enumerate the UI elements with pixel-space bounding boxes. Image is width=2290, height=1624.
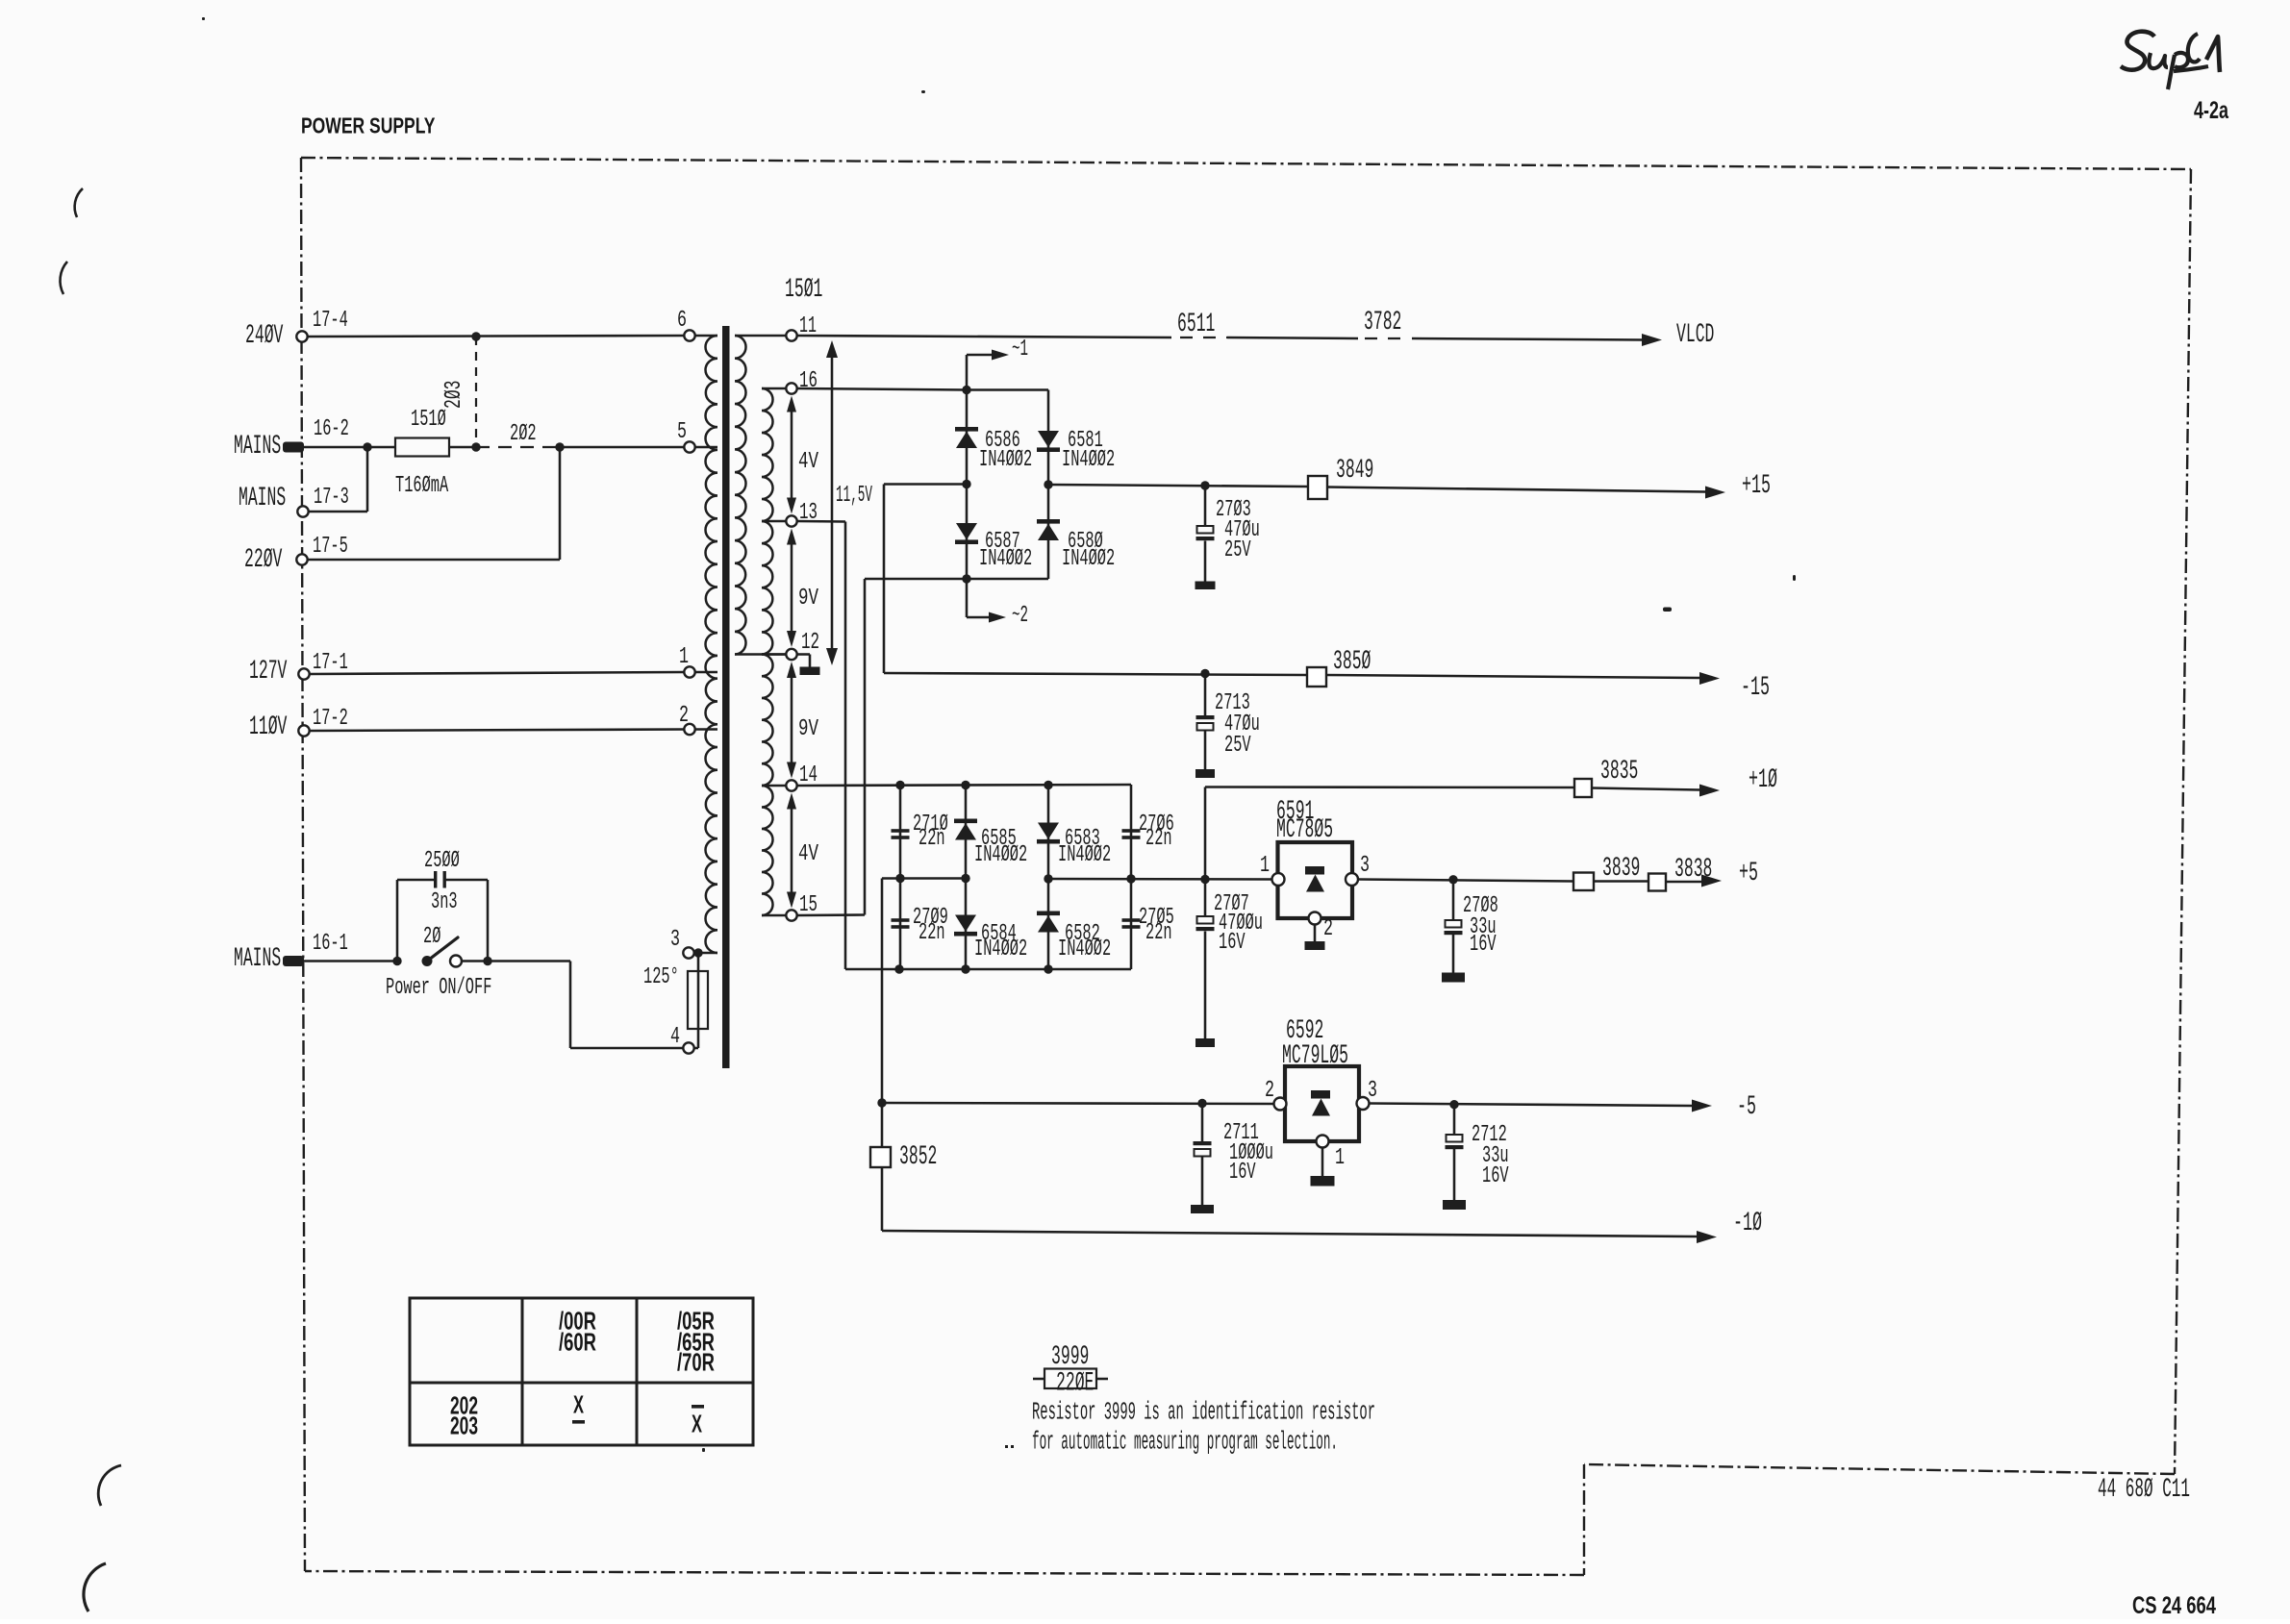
svg-text:CS 24 664: CS 24 664 — [2132, 1592, 2216, 1619]
svg-text:17-3: 17-3 — [314, 485, 349, 511]
svg-text:IN4ØØ2: IN4ØØ2 — [1062, 546, 1115, 572]
svg-text:IN4ØØ2: IN4ØØ2 — [974, 842, 1027, 868]
svg-text:2Ø3: 2Ø3 — [441, 381, 467, 410]
svg-text:MAINS: MAINS — [239, 484, 286, 513]
svg-text:11,5V: 11,5V — [836, 483, 872, 509]
svg-text:4V: 4V — [798, 841, 818, 867]
svg-text:3: 3 — [1360, 853, 1370, 879]
svg-text:6511: 6511 — [1177, 310, 1215, 339]
svg-text:25V: 25V — [1224, 733, 1251, 759]
svg-text:3999: 3999 — [1051, 1342, 1089, 1372]
svg-text:MC79LØ5: MC79LØ5 — [1282, 1041, 1348, 1071]
svg-text:17-1: 17-1 — [313, 650, 348, 676]
svg-text:125°: 125° — [643, 964, 679, 990]
svg-text:3: 3 — [670, 927, 680, 953]
svg-text:/60R: /60R — [559, 1328, 596, 1357]
svg-text:X: X — [692, 1410, 702, 1438]
svg-text:-1Ø: -1Ø — [1733, 1209, 1762, 1238]
svg-text:16-1: 16-1 — [313, 931, 348, 957]
svg-text:5: 5 — [677, 419, 687, 445]
svg-text:203: 203 — [450, 1412, 478, 1440]
svg-text:IN4ØØ2: IN4ØØ2 — [979, 447, 1032, 473]
svg-text:Resistor 3999 is an identifica: Resistor 3999 is an identification resis… — [1032, 1399, 1375, 1427]
svg-text:~2: ~2 — [1012, 603, 1028, 629]
svg-text:-15: -15 — [1741, 673, 1770, 703]
svg-text:16V: 16V — [1229, 1160, 1256, 1186]
svg-text:4V: 4V — [798, 449, 818, 475]
svg-text:25ØØ: 25ØØ — [424, 848, 460, 874]
svg-text:17-5: 17-5 — [313, 534, 348, 560]
svg-text:MAINS: MAINS — [234, 432, 281, 462]
svg-text:22n: 22n — [1145, 920, 1172, 946]
svg-text:3n3: 3n3 — [431, 889, 458, 915]
svg-text:/70R: /70R — [677, 1348, 715, 1377]
svg-text:+5: +5 — [1739, 859, 1758, 888]
svg-text:IN4ØØ2: IN4ØØ2 — [1058, 842, 1111, 868]
svg-text:~1: ~1 — [1012, 337, 1028, 362]
svg-text:6: 6 — [677, 308, 687, 334]
svg-text:2: 2 — [1265, 1078, 1274, 1104]
svg-text:385Ø: 385Ø — [1333, 647, 1371, 677]
svg-text:24ØV: 24ØV — [245, 321, 284, 351]
svg-text:16V: 16V — [1470, 932, 1497, 958]
svg-text:X: X — [573, 1390, 584, 1419]
svg-text:16: 16 — [799, 368, 818, 394]
svg-text:15Ø1: 15Ø1 — [785, 275, 822, 305]
svg-text:-5: -5 — [1737, 1092, 1756, 1122]
svg-text:IN4ØØ2: IN4ØØ2 — [979, 546, 1032, 572]
svg-text:16V: 16V — [1482, 1163, 1509, 1189]
svg-text:3: 3 — [1368, 1078, 1377, 1104]
svg-text:+1Ø: +1Ø — [1749, 765, 1777, 795]
svg-text:127V: 127V — [249, 657, 288, 687]
svg-text:3849: 3849 — [1336, 456, 1373, 486]
svg-text:3839: 3839 — [1602, 854, 1640, 884]
svg-text:3782: 3782 — [1364, 308, 1401, 337]
svg-text:22n: 22n — [1145, 826, 1172, 852]
svg-text:VLCD: VLCD — [1676, 320, 1714, 350]
svg-text:25V: 25V — [1224, 537, 1251, 563]
svg-text:2Ø: 2Ø — [423, 924, 440, 950]
svg-text:16-2: 16-2 — [314, 416, 349, 442]
svg-text:44 68Ø C11: 44 68Ø C11 — [2098, 1475, 2190, 1505]
svg-text:22n: 22n — [919, 826, 945, 852]
svg-text:+15: +15 — [1742, 471, 1771, 501]
svg-text:2: 2 — [1323, 916, 1333, 942]
svg-text:4: 4 — [670, 1024, 680, 1050]
svg-text:4-2a: 4-2a — [2194, 97, 2229, 124]
svg-text:17-2: 17-2 — [313, 706, 348, 732]
svg-text:3852: 3852 — [899, 1142, 937, 1172]
svg-text:12: 12 — [801, 630, 819, 656]
svg-text:T16ØmA: T16ØmA — [395, 473, 449, 499]
svg-text:POWER SUPPLY: POWER SUPPLY — [301, 112, 436, 137]
svg-text:IN4ØØ2: IN4ØØ2 — [1058, 937, 1111, 962]
svg-text:IN4ØØ2: IN4ØØ2 — [974, 937, 1027, 962]
svg-text:151Ø: 151Ø — [411, 407, 446, 433]
svg-text:9V: 9V — [798, 716, 818, 742]
svg-text:MC78Ø5: MC78Ø5 — [1276, 815, 1333, 845]
svg-text:3838: 3838 — [1674, 855, 1712, 885]
svg-text:16V: 16V — [1219, 930, 1246, 956]
svg-text:3835: 3835 — [1600, 757, 1638, 787]
svg-text:11ØV: 11ØV — [249, 712, 288, 742]
svg-text:1: 1 — [1260, 853, 1270, 879]
svg-text:22ØV: 22ØV — [244, 545, 283, 575]
svg-text:IN4ØØ2: IN4ØØ2 — [1062, 447, 1115, 473]
svg-text:22ØE: 22ØE — [1056, 1369, 1094, 1399]
svg-text:22n: 22n — [919, 920, 945, 946]
svg-text:2Ø2: 2Ø2 — [510, 421, 537, 447]
svg-text:1: 1 — [1335, 1145, 1345, 1171]
svg-text:MAINS: MAINS — [234, 944, 281, 974]
svg-text:17-4: 17-4 — [313, 308, 348, 334]
svg-text:for automatic measuring progra: for automatic measuring program selectio… — [1032, 1429, 1338, 1457]
svg-text:Power ON/OFF: Power ON/OFF — [386, 975, 491, 1001]
svg-text:9V: 9V — [798, 586, 818, 612]
